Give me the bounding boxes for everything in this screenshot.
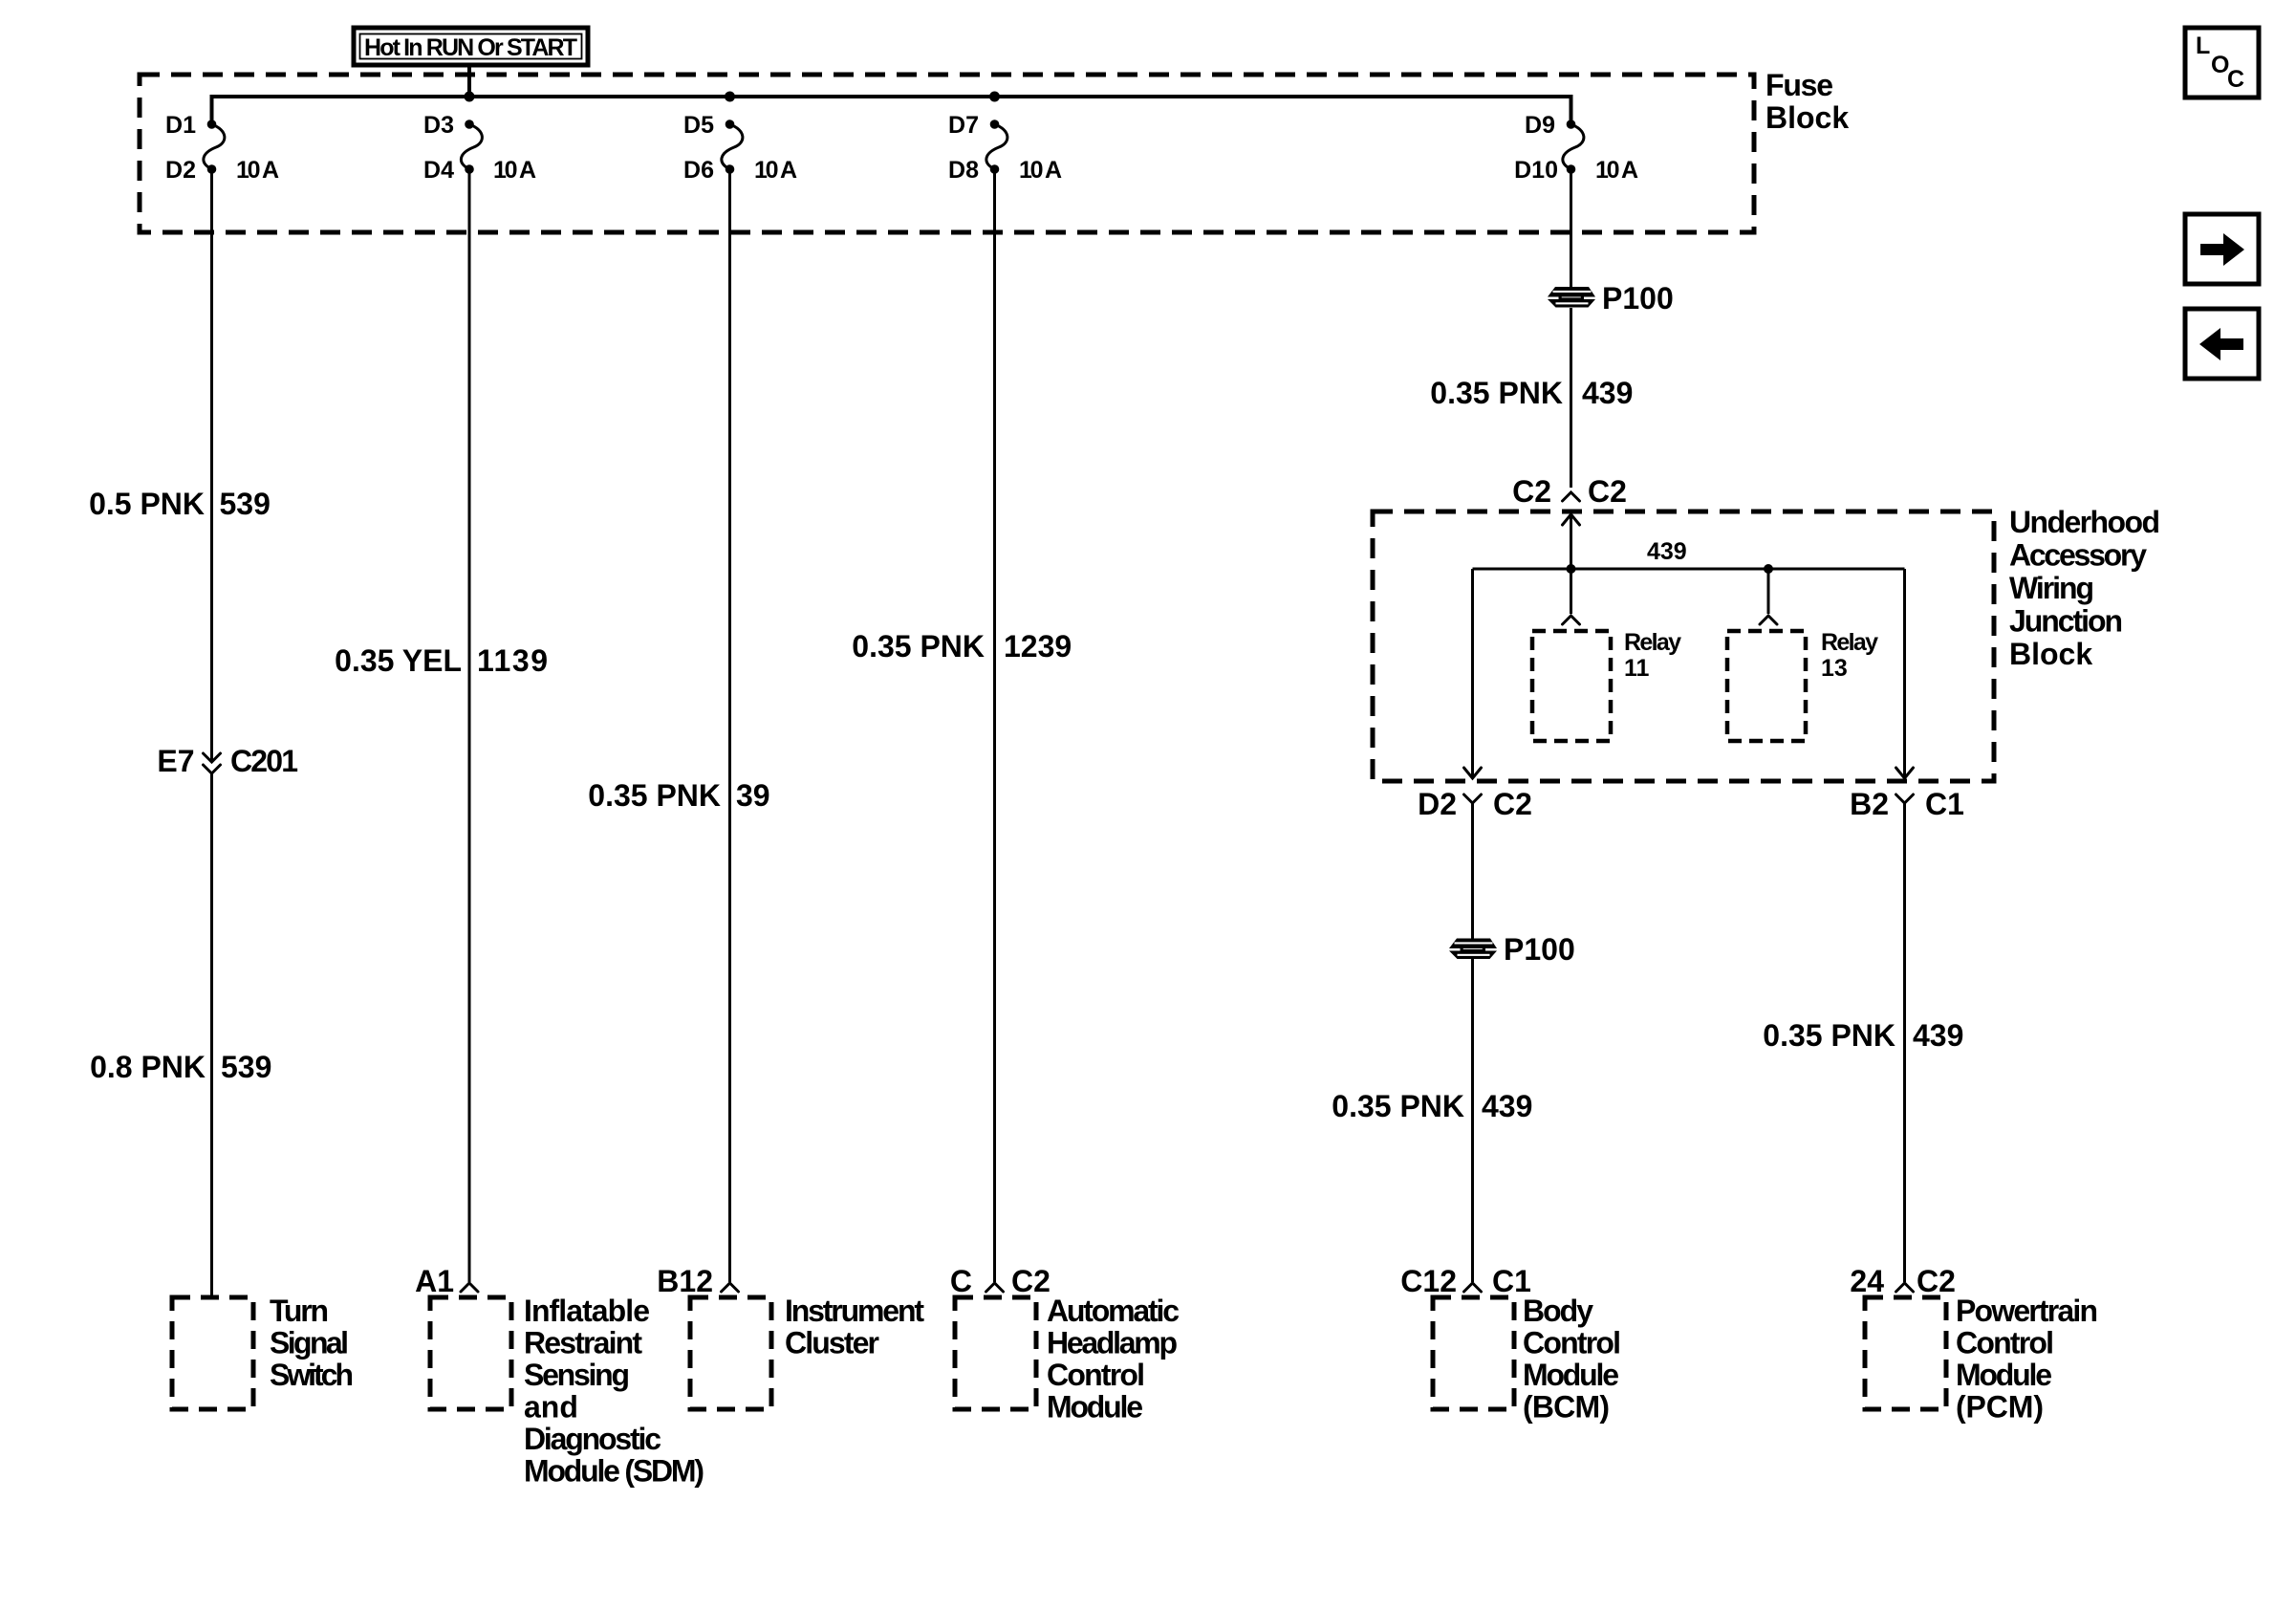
- svg-text:D9: D9: [1525, 112, 1555, 139]
- junction dot at relay 11 feed: [1567, 564, 1576, 574]
- connector C2 / C2 chevron into underhood junction block: [1563, 492, 1580, 501]
- svg-text:C201: C201: [230, 744, 298, 778]
- wire label 0.35 PNK 1239: [852, 629, 1072, 664]
- svg-text:10 A: 10 A: [1019, 157, 1062, 184]
- svg-text:L: L: [2196, 33, 2210, 59]
- label: Instrument Cluster: [785, 1294, 924, 1360]
- svg-text:Signal: Signal: [270, 1326, 349, 1360]
- label: Turn Signal Switch: [270, 1294, 354, 1392]
- svg-text:Block: Block: [2009, 637, 2092, 671]
- svg-text:C2: C2: [1512, 474, 1551, 509]
- svg-text:Accessory: Accessory: [2009, 538, 2147, 573]
- svg-text:Inflatable: Inflatable: [524, 1294, 650, 1328]
- connector pin A1 chevron at SDM: [461, 1283, 478, 1292]
- svg-text:439: 439: [1913, 1018, 1963, 1053]
- connector pin 24 chevron at PCM, connector C2: [1896, 1283, 1914, 1292]
- svg-text:Module: Module: [1523, 1358, 1619, 1392]
- connector B2 / C1 (below junction block): [1896, 794, 1914, 803]
- svg-text:0.35 PNK: 0.35 PNK: [1430, 376, 1563, 410]
- node: Hot In RUN Or START power label box: [354, 28, 588, 65]
- wire label 0.35 PNK 439 (right): [1763, 1018, 1963, 1053]
- svg-text:Cluster: Cluster: [785, 1326, 879, 1360]
- wire: 0.35 PNK 439 from B2/C1 to PCM: [1903, 803, 1906, 1282]
- svg-text:Block: Block: [1765, 100, 1849, 135]
- svg-text:Control: Control: [1956, 1326, 2054, 1360]
- fuse block dashed enclosure: [140, 75, 1754, 232]
- connector pin B12 chevron at instrument cluster: [722, 1283, 739, 1292]
- svg-text:Sensing: Sensing: [524, 1358, 630, 1392]
- svg-text:Fuse: Fuse: [1765, 68, 1833, 102]
- wire: 0.35 PNK 439 from P100 to connector C2: [1570, 308, 1572, 488]
- svg-text:C2: C2: [1588, 474, 1627, 509]
- svg-text:and: and: [524, 1390, 578, 1425]
- fuse D1/D2 10A: [204, 120, 225, 174]
- svg-text:C12: C12: [1400, 1264, 1457, 1298]
- svg-text:Diagnostic: Diagnostic: [524, 1422, 661, 1456]
- svg-text:Control: Control: [1047, 1358, 1145, 1392]
- node: Fuse Block label: [1765, 68, 1849, 135]
- grommet P100 (lower): [1449, 939, 1497, 960]
- svg-text:(BCM): (BCM): [1523, 1390, 1610, 1425]
- node: backward arrow legend box: [2185, 309, 2259, 379]
- svg-text:D1: D1: [165, 112, 196, 139]
- wire: internal 439 bus in junction block: [1473, 568, 1905, 571]
- svg-text:Hot In RUN Or START: Hot In RUN Or START: [364, 34, 577, 61]
- svg-text:Relay: Relay: [1624, 629, 1681, 656]
- wire: 0.35 PNK 39 from fuse D6 to instrument cluster: [728, 169, 731, 1282]
- component: Automatic Headlamp Control Module dashed box: [955, 1297, 1036, 1409]
- label: Automatic Headlamp Control Module: [1047, 1294, 1180, 1425]
- junction on bus at D3 feed: [465, 92, 475, 102]
- svg-text:13: 13: [1821, 655, 1848, 682]
- svg-text:D4: D4: [423, 157, 454, 184]
- svg-text:C2: C2: [1917, 1264, 1956, 1298]
- svg-text:(PCM): (PCM): [1956, 1390, 2044, 1425]
- component: Body Control Module (BCM) dashed box: [1433, 1297, 1514, 1409]
- svg-text:Wiring: Wiring: [2009, 571, 2094, 605]
- svg-text:439: 439: [1647, 538, 1687, 565]
- svg-text:Junction: Junction: [2009, 604, 2123, 639]
- svg-text:Control: Control: [1523, 1326, 1621, 1360]
- svg-text:P100: P100: [1602, 281, 1674, 315]
- svg-text:D2: D2: [165, 157, 196, 184]
- wire: entry arrow into junction block (up arrow): [1563, 514, 1580, 569]
- svg-text:11: 11: [1624, 655, 1650, 682]
- svg-text:C1: C1: [1925, 787, 1964, 821]
- svg-text:24: 24: [1850, 1264, 1884, 1298]
- svg-text:C: C: [950, 1264, 972, 1298]
- svg-text:Headlamp: Headlamp: [1047, 1326, 1178, 1360]
- component: Relay 11 dashed box: [1532, 631, 1611, 741]
- svg-text:Switch: Switch: [270, 1358, 354, 1392]
- wire label 0.8 PNK 539: [90, 1050, 271, 1084]
- svg-text:10 A: 10 A: [236, 157, 279, 184]
- wire: feed from Hot In RUN Or START to fuse block bus: [467, 65, 471, 97]
- svg-text:0.35 PNK: 0.35 PNK: [852, 629, 985, 664]
- component: Powertrain Control Module (PCM) dashed box: [1865, 1297, 1946, 1409]
- svg-text:A1: A1: [415, 1264, 454, 1298]
- wire: 0.35 PNK 439 from fuse D10 to grommet P100: [1570, 169, 1572, 288]
- svg-text:Module: Module: [1047, 1390, 1143, 1425]
- wire: 0.35 PNK 439 from D2/C2 to grommet P100 (lower): [1471, 803, 1474, 939]
- connector pin C12 chevron at BCM, connector C1: [1464, 1283, 1482, 1292]
- svg-text:Automatic: Automatic: [1047, 1294, 1180, 1328]
- wire: 0.35 PNK 439 from P100 to BCM: [1471, 959, 1474, 1282]
- wire: 0.8 PNK 539 from C201 to turn signal switch: [210, 773, 213, 1297]
- wire label 0.35 PNK 439 (top right): [1430, 376, 1633, 410]
- svg-text:0.35 PNK: 0.35 PNK: [1332, 1089, 1464, 1123]
- svg-text:10 A: 10 A: [493, 157, 536, 184]
- fuse D3/D4 10A: [461, 120, 482, 174]
- svg-text:E7: E7: [157, 744, 194, 778]
- svg-text:439: 439: [1582, 376, 1633, 410]
- svg-text:P100: P100: [1504, 932, 1575, 967]
- wire: fuse block bus bar: [212, 97, 1571, 124]
- junction on bus at D5: [725, 92, 735, 102]
- svg-text:Module (SDM): Module (SDM): [524, 1454, 704, 1489]
- connector chevron at relay 11: [1563, 616, 1580, 624]
- wire: 0.35 PNK 1239 from fuse D8 to automatic headlamp control module: [993, 169, 996, 1282]
- node: forward arrow legend box: [2185, 214, 2259, 284]
- wire: stub to relay 11: [1570, 569, 1572, 614]
- junction dot at relay 13 feed: [1764, 564, 1773, 574]
- svg-text:10 A: 10 A: [1595, 157, 1638, 184]
- fuse D7/D8 10A: [986, 120, 1007, 174]
- svg-text:D5: D5: [683, 112, 714, 139]
- label: Powertrain Control Module (PCM): [1956, 1294, 2098, 1425]
- wire: 0.5 PNK 539 from fuse D2 to connector C201: [210, 169, 213, 761]
- label: Relay 13: [1821, 629, 1878, 682]
- svg-text:39: 39: [736, 778, 770, 813]
- svg-text:Module: Module: [1956, 1358, 2052, 1392]
- component: Turn Signal Switch (dashed box): [172, 1297, 253, 1409]
- wire label 0.35 YEL 1139: [335, 643, 548, 678]
- component: Underhood Accessory Wiring Junction Block dashed box: [1373, 511, 1994, 781]
- wire: left drop to D2/C2 with down arrow: [1464, 569, 1482, 778]
- wire label 0.5 PNK 539: [89, 487, 271, 521]
- svg-text:Instrument: Instrument: [785, 1294, 924, 1328]
- svg-text:0.8 PNK: 0.8 PNK: [90, 1050, 206, 1084]
- wire label 0.35 PNK 439 (left lower): [1332, 1089, 1532, 1123]
- connector D2 / C2 (below junction block): [1464, 794, 1482, 803]
- label: Underhood Accessory Wiring Junction Block: [2009, 505, 2160, 671]
- node: LOC legend box: [2185, 28, 2259, 98]
- connector C201 pin E7 (inline pass-through): [204, 753, 221, 773]
- svg-text:Underhood: Underhood: [2009, 505, 2160, 539]
- grommet P100 (upper): [1548, 287, 1595, 308]
- fuse D9/D10 10A: [1563, 120, 1584, 174]
- fuse D5/D6 10A: [722, 120, 743, 174]
- svg-text:Body: Body: [1523, 1294, 1593, 1328]
- svg-text:0.5 PNK: 0.5 PNK: [89, 487, 205, 521]
- wire: right drop to B2/C1 with down arrow: [1896, 569, 1914, 778]
- svg-text:0.35 PNK: 0.35 PNK: [1763, 1018, 1895, 1053]
- svg-text:539: 539: [221, 1050, 271, 1084]
- component: Relay 13 dashed box: [1727, 631, 1806, 741]
- svg-text:C2: C2: [1493, 787, 1532, 821]
- wire: 0.35 YEL 1139 from fuse D4 to SDM: [468, 169, 471, 1282]
- svg-text:10 A: 10 A: [754, 157, 797, 184]
- wire label 0.35 PNK 39: [588, 778, 769, 813]
- connector pin C chevron at AHLC module, connector C2: [986, 1283, 1004, 1292]
- wire: stub to relay 13: [1767, 569, 1770, 614]
- svg-text:D7: D7: [948, 112, 979, 139]
- svg-text:1139: 1139: [477, 643, 548, 678]
- svg-text:D3: D3: [423, 112, 454, 139]
- connector chevron at relay 13: [1760, 616, 1777, 624]
- component: Instrument Cluster dashed box: [690, 1297, 771, 1409]
- label: Inflatable Restraint Sensing and Diagnostic Module (SDM): [524, 1294, 704, 1489]
- svg-text:Restraint: Restraint: [524, 1326, 642, 1360]
- svg-text:B12: B12: [657, 1264, 713, 1298]
- svg-text:C: C: [2227, 66, 2244, 93]
- svg-text:0.35 PNK: 0.35 PNK: [588, 778, 721, 813]
- component: Inflatable Restraint Sensing and Diagnostic Module (SDM) dashed box: [430, 1297, 511, 1409]
- svg-text:D6: D6: [683, 157, 714, 184]
- svg-text:C2: C2: [1011, 1264, 1051, 1298]
- svg-text:D2: D2: [1418, 787, 1457, 821]
- svg-text:1239: 1239: [1004, 629, 1072, 664]
- svg-text:D10: D10: [1514, 157, 1558, 184]
- svg-text:Powertrain: Powertrain: [1956, 1294, 2098, 1328]
- label: Relay 11: [1624, 629, 1681, 682]
- svg-text:0.35 YEL: 0.35 YEL: [335, 643, 462, 678]
- label: Body Control Module (BCM): [1523, 1294, 1621, 1425]
- svg-text:539: 539: [220, 487, 271, 521]
- svg-text:439: 439: [1482, 1089, 1532, 1123]
- svg-text:Turn: Turn: [270, 1294, 329, 1328]
- svg-text:Relay: Relay: [1821, 629, 1878, 656]
- svg-text:B2: B2: [1850, 787, 1889, 821]
- junction on bus at D7: [989, 92, 1000, 102]
- svg-text:D8: D8: [948, 157, 979, 184]
